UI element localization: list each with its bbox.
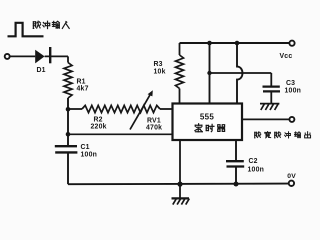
svg-text:0V: 0V xyxy=(287,173,296,180)
svg-text:4k7: 4k7 xyxy=(77,86,89,93)
svg-text:RV1: RV1 xyxy=(147,118,161,125)
svg-text:555: 555 xyxy=(200,113,214,122)
svg-text:R1: R1 xyxy=(77,79,86,86)
svg-text:100n: 100n xyxy=(248,167,265,174)
svg-text:D1: D1 xyxy=(37,67,46,74)
svg-text:470k: 470k xyxy=(146,125,162,132)
svg-text:R3: R3 xyxy=(154,61,163,68)
svg-text:C1: C1 xyxy=(81,144,90,151)
svg-text:220k: 220k xyxy=(91,124,107,131)
svg-text:C2: C2 xyxy=(249,158,258,165)
svg-text:Vcc: Vcc xyxy=(280,53,293,60)
svg-text:R2: R2 xyxy=(94,117,103,124)
svg-text:10k: 10k xyxy=(154,69,166,76)
svg-text:C3: C3 xyxy=(286,80,295,87)
svg-text:100n: 100n xyxy=(285,87,302,94)
svg-text:100n: 100n xyxy=(81,151,98,158)
